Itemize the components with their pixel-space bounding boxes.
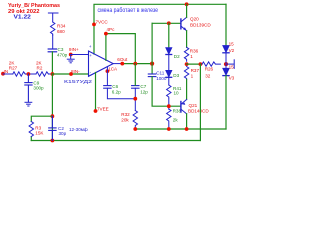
node IN: [1, 72, 5, 76]
svg-text:7VEE: 7VEE: [97, 106, 109, 111]
wire to op-amp + input: [71, 54, 89, 56]
svg-text:15: 15: [229, 42, 235, 47]
svg-text:6.2p: 6.2p: [112, 89, 121, 94]
node 9IN+: [69, 53, 73, 57]
wire Q20 emitter to R36: [186, 31, 188, 48]
wire: [3, 73, 13, 75]
resistor R38: [167, 109, 171, 129]
diode V2: [223, 46, 229, 65]
node 6Out: [120, 62, 124, 66]
capacitor C11: [148, 74, 156, 77]
svg-text:D2: D2: [174, 54, 180, 59]
svg-text:V3: V3: [229, 76, 235, 81]
resistor R41: [167, 85, 171, 98]
node junction diode chain top: [167, 21, 171, 25]
svg-text:1: 1: [190, 54, 193, 59]
capacitor C2: [49, 116, 56, 140]
svg-text:V2: V2: [229, 48, 235, 53]
diode D3: [166, 71, 172, 86]
svg-text:V1.22: V1.22: [14, 15, 32, 21]
svg-text:+: +: [89, 44, 92, 49]
svg-text:680: 680: [57, 29, 65, 34]
wire V3 to bus A: [225, 76, 227, 129]
svg-text:C7: C7: [140, 84, 146, 89]
capacitor C6: [104, 86, 111, 89]
resistor R36: [184, 47, 188, 61]
node 4Pc: [104, 32, 108, 36]
wire C11 to Q21 base line: [152, 77, 180, 107]
svg-text:R27: R27: [9, 66, 18, 71]
node Q20 collector to VCC rail: [185, 2, 189, 6]
wire bus B: [31, 140, 200, 142]
svg-text:4Pc: 4Pc: [107, 27, 116, 32]
wire Q20 base line: [152, 22, 180, 24]
svg-text:Q21: Q21: [189, 103, 198, 108]
svg-text:смена работает в железе: смена работает в железе: [98, 8, 159, 14]
output terminal: [226, 60, 234, 69]
svg-text:1000: 1000: [156, 76, 167, 81]
wire vertical to bus B: [199, 64, 201, 140]
node junction at vertical to bus B: [199, 62, 203, 66]
op-amp U1 K157UD2: [89, 51, 114, 76]
svg-text:BD140CD: BD140CD: [188, 108, 209, 113]
resistor R26: [202, 62, 220, 66]
node 1CA: [106, 69, 110, 73]
diode V3: [223, 64, 229, 76]
svg-text:32: 32: [205, 73, 211, 78]
svg-text:1: 1: [191, 74, 194, 79]
wire Q21 collector to bus A: [186, 114, 188, 129]
capacitor C3: [48, 49, 56, 52]
svg-text:+: +: [89, 53, 92, 58]
wire: [168, 99, 170, 110]
wire right column from VCC rail: [225, 4, 227, 45]
svg-text:R36: R36: [190, 49, 199, 54]
svg-text:20k: 20k: [121, 118, 129, 123]
wire IN- node down to R3/C2: [51, 74, 53, 141]
ground: [67, 55, 74, 63]
svg-text:-: -: [90, 69, 92, 74]
pin 4 Pc wire: [106, 34, 135, 64]
node 7VCC: [92, 23, 96, 27]
svg-text:R37: R37: [191, 68, 200, 73]
node junction R41/R38/base: [167, 104, 171, 108]
wire C3 to IN- node: [51, 52, 53, 74]
svg-text:C3: C3: [58, 47, 64, 52]
svg-text:IN: IN: [4, 69, 9, 74]
wire C7 column down: [134, 64, 136, 86]
wire: [52, 35, 54, 49]
transistor Q20: [180, 19, 182, 29]
node junction output node: [185, 62, 189, 66]
ground: [25, 102, 32, 106]
svg-text:12-30мф: 12-30мф: [69, 127, 88, 132]
svg-text:10: 10: [174, 91, 180, 96]
node 8IN-: [69, 72, 73, 76]
svg-text:D3: D3: [173, 73, 179, 78]
svg-text:R2: R2: [37, 66, 43, 71]
resistor R32: [133, 111, 137, 130]
node junction R38/bus A: [167, 127, 171, 131]
wire diode chain: [168, 23, 170, 47]
svg-text:Q20: Q20: [190, 17, 199, 22]
svg-text:R26: R26: [205, 67, 214, 72]
node 7VEE: [94, 109, 98, 113]
resistor R3: [29, 122, 33, 137]
node junction: [27, 72, 31, 76]
wire bus A: [135, 128, 226, 130]
node junction R32/bus A: [133, 127, 137, 131]
svg-text:R34: R34: [57, 24, 66, 29]
svg-text:C6: C6: [112, 84, 118, 89]
svg-text:К157УД2: К157УД2: [64, 79, 93, 84]
resistor R27: [13, 72, 25, 76]
svg-text:15: 15: [229, 65, 235, 70]
svg-text:7VCC: 7VCC: [96, 20, 109, 25]
wire R37 to Q21 emitter: [186, 80, 188, 100]
svg-text:8IN-: 8IN-: [71, 69, 80, 74]
diode D2: [166, 48, 172, 71]
node junction C7 column: [133, 62, 137, 66]
svg-text:6Out: 6Out: [117, 57, 128, 62]
svg-text:300p: 300p: [33, 85, 44, 90]
wire to op-amp inverting input: [52, 73, 88, 75]
wire VEE stub: [95, 73, 97, 112]
svg-text:2k: 2k: [173, 118, 179, 123]
wire VCC top rail: [94, 4, 226, 54]
wire C11 column top: [151, 23, 153, 73]
svg-text:470p: 470p: [57, 53, 68, 58]
svg-text:15K: 15K: [35, 131, 44, 136]
node junction Q21/bus A: [185, 127, 189, 131]
node junction R3 top: [51, 114, 55, 118]
wire op-amp output: [113, 63, 122, 65]
svg-text:12p: 12p: [140, 89, 148, 94]
wire R3 branch: [31, 116, 52, 121]
wire op-amp CA pin down: [106, 67, 108, 85]
svg-text:R32: R32: [121, 112, 130, 117]
wire output node to R26: [187, 63, 202, 65]
wire C6 to Q21 base line: [107, 88, 135, 99]
resistor R37: [184, 67, 188, 80]
svg-text:9IN+: 9IN+: [69, 47, 79, 52]
resistor R2: [36, 72, 48, 76]
capacitor C9: [25, 74, 32, 102]
wire: [49, 73, 53, 75]
node junction C11 column: [150, 62, 154, 66]
node V2/V3 junction: [224, 62, 228, 66]
node junction C6/C7/R32: [133, 97, 137, 101]
transistor Q21: [180, 102, 182, 113]
resistor R34: [51, 22, 55, 35]
svg-text:30p: 30p: [59, 131, 67, 136]
svg-text:R38: R38: [173, 108, 182, 113]
svg-text:BD139CD: BD139CD: [190, 23, 211, 28]
wire: [26, 73, 36, 75]
node junction C2 bottom: [51, 139, 55, 143]
capacitor C7: [132, 86, 139, 89]
svg-text:1CA: 1CA: [108, 67, 118, 72]
input terminal T1: [48, 13, 58, 22]
node IN- junction: [51, 72, 55, 76]
